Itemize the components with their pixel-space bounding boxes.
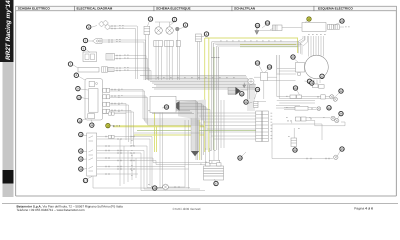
svg-text:©Tutti i diritti riservati: ©Tutti i diritti riservati	[173, 207, 201, 211]
svg-text:Telefono +39 055 8348741 – www: Telefono +39 055 8348741 – www.betamotor…	[17, 208, 85, 212]
svg-text:RR2T Racing my’14: RR2T Racing my’14	[5, 0, 12, 60]
svg-text:SCHÉMA ÉLECTRIQUE: SCHÉMA ÉLECTRIQUE	[156, 7, 191, 11]
svg-text:ESQUEMA ELÉCTRICO: ESQUEMA ELÉCTRICO	[318, 7, 353, 11]
svg-text:ELECTRICAL DIAGRAM: ELECTRICAL DIAGRAM	[77, 7, 113, 11]
svg-text:SCHALTPLAN: SCHALTPLAN	[234, 7, 256, 11]
svg-text:SCHEMA ELETTRICO: SCHEMA ELETTRICO	[18, 7, 51, 11]
svg-text:Pagina 4 di 6: Pagina 4 di 6	[354, 207, 373, 211]
